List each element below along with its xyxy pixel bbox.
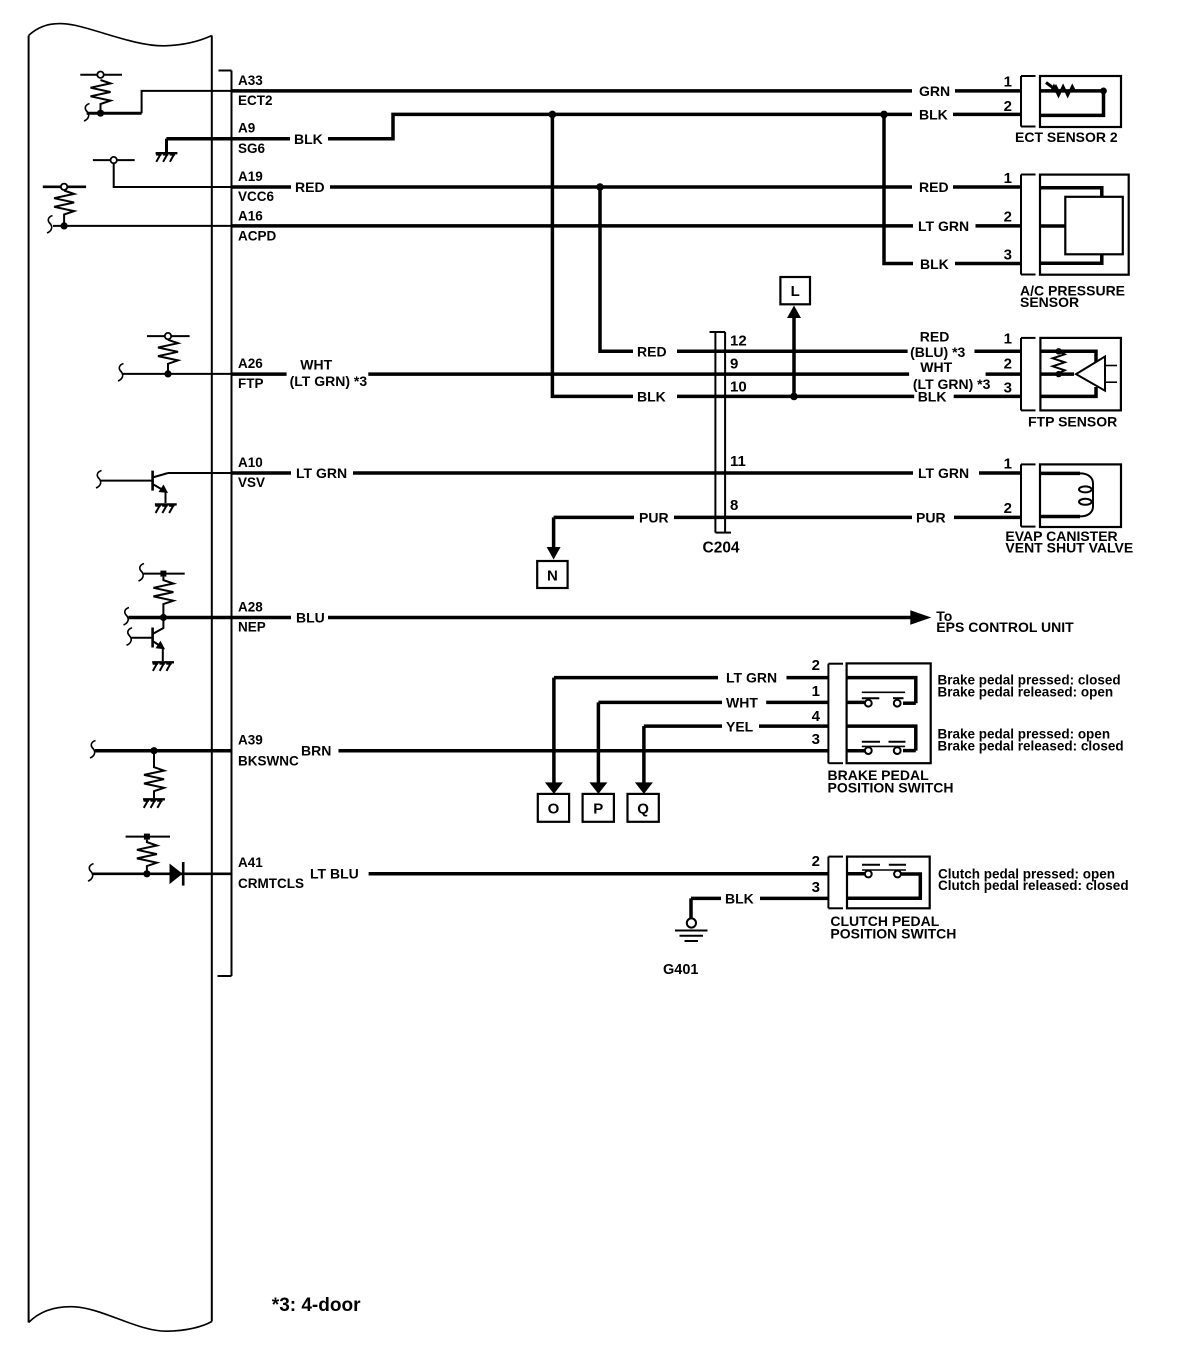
top contact right link	[903, 701, 916, 705]
wire LT GRN to pin2	[787, 676, 829, 680]
transistor Q-A28 base wire with hook	[132, 637, 153, 639]
ECM torn band left edge	[28, 36, 30, 1323]
ground symbol A28	[152, 662, 174, 671]
pull-up at A16: top bar	[43, 186, 86, 189]
ECT bracket	[1020, 76, 1022, 127]
hook squiggle A28 top	[139, 564, 145, 582]
drop O	[552, 678, 556, 783]
wire LT GRN brake	[554, 676, 718, 680]
ground symbol A39	[143, 799, 165, 808]
svg-text:RED: RED	[295, 179, 325, 195]
top contact bars	[862, 697, 880, 699]
wire A19 drop and run	[114, 163, 232, 187]
junction dot A39	[150, 747, 157, 754]
svg-text:BLK: BLK	[294, 131, 323, 147]
arrow to L	[792, 316, 796, 396]
svg-text:A9: A9	[238, 121, 255, 136]
wire A28 emitter drop	[162, 648, 164, 661]
wire BLK branch	[884, 114, 913, 263]
box N	[537, 561, 567, 588]
box Q	[628, 794, 659, 822]
svg-text:2: 2	[812, 853, 820, 870]
wire A33 bottom bar with hook	[87, 112, 142, 115]
svg-text:A19: A19	[238, 169, 263, 184]
diode D-A41	[170, 864, 183, 885]
svg-text:VSV: VSV	[238, 475, 265, 490]
transistor Q-A28 base bar	[151, 628, 154, 648]
wire LT GRN stub	[232, 471, 292, 475]
ECT loop corner dot	[1100, 88, 1107, 95]
FTP resistor	[1053, 351, 1065, 373]
svg-text:BLK: BLK	[919, 107, 948, 123]
hook squiggle A26	[118, 364, 124, 382]
arrowhead EPS	[910, 610, 931, 625]
svg-text:Brake pedal released: open: Brake pedal released: open	[938, 685, 1114, 700]
box O	[538, 794, 569, 822]
bracket top hook	[219, 70, 232, 72]
svg-text:A39: A39	[238, 733, 263, 748]
A/C pin1 internal	[1040, 188, 1102, 197]
ECM torn band top wave	[29, 24, 212, 46]
wire GRN row	[232, 89, 913, 93]
svg-text:BRN: BRN	[301, 743, 331, 759]
svg-text:8: 8	[730, 497, 738, 514]
wire PUR row8	[674, 516, 912, 520]
svg-text:1: 1	[1004, 170, 1012, 187]
svg-text:CRMTCLS: CRMTCLS	[238, 876, 304, 891]
svg-text:PUR: PUR	[639, 510, 669, 526]
wire A10 collector run	[168, 472, 232, 474]
clutch right link and return path	[847, 874, 920, 898]
svg-text:Brake pedal released: closed: Brake pedal released: closed	[938, 739, 1124, 754]
top contact circles	[865, 700, 872, 707]
wire RED to FTP pin1	[975, 350, 1022, 354]
svg-text:2: 2	[812, 657, 820, 674]
svg-text:2: 2	[1004, 209, 1012, 226]
svg-text:A10: A10	[238, 455, 263, 470]
svg-text:RED: RED	[920, 329, 950, 345]
wire RED drop from row3	[600, 187, 633, 351]
clutch contact bars	[862, 864, 880, 866]
svg-text:C204: C204	[703, 540, 740, 557]
svg-text:G401: G401	[663, 962, 698, 978]
svg-text:WHT: WHT	[300, 356, 332, 372]
brake switch bottom contact: pin4 path	[847, 726, 916, 751]
transistor Q-A10 emitter with arrow	[153, 484, 166, 492]
bracket bottom hook	[218, 975, 232, 977]
junction dot BLK x553	[549, 111, 557, 119]
connector C204	[710, 332, 732, 533]
svg-text:(LT GRN) *3: (LT GRN) *3	[290, 373, 368, 389]
hook squiggle A10	[96, 471, 102, 489]
FTP pin3 internal	[1040, 387, 1096, 396]
svg-text:BLK: BLK	[918, 389, 947, 405]
wire A41/CRMTCLS run with hook	[93, 872, 232, 875]
svg-text:ACPD: ACPD	[238, 229, 277, 244]
pull-up A16 terminal circle	[61, 184, 67, 190]
ground G401	[675, 918, 708, 941]
svg-text:RED: RED	[637, 344, 667, 360]
wire BLK row10	[677, 395, 914, 399]
svg-text:BLK: BLK	[637, 389, 666, 405]
EVAP bracket	[1020, 464, 1022, 526]
wire A26 run with hook	[123, 373, 232, 375]
svg-text:P: P	[593, 801, 603, 818]
svg-text:1: 1	[1004, 74, 1012, 91]
brake switch top contact: pin2 path	[847, 678, 916, 704]
box P	[583, 794, 614, 822]
svg-text:11: 11	[730, 453, 746, 470]
wire YEL brake	[644, 724, 722, 728]
wire PUR to EVAP pin2	[954, 516, 1021, 520]
pull-up at A26: top bar	[147, 335, 190, 337]
junction dot L-branch	[790, 393, 798, 401]
hook squiggle A33	[84, 104, 90, 122]
resistor R-A28 zigzag	[153, 577, 173, 618]
svg-text:POSITION SWITCH: POSITION SWITCH	[830, 926, 956, 942]
svg-text:1: 1	[812, 683, 820, 700]
svg-text:3: 3	[812, 731, 820, 748]
transistor Q-A28 emitter with arrow	[153, 641, 163, 648]
svg-text:Clutch pedal released: closed: Clutch pedal released: closed	[938, 878, 1129, 893]
svg-text:FTP: FTP	[238, 376, 264, 391]
ECT thermistor wires	[1040, 91, 1104, 116]
A41 cluster: top bar	[126, 836, 170, 838]
wire WHT to pin1	[766, 701, 828, 705]
FTP box	[1040, 338, 1121, 411]
svg-text:2: 2	[1004, 98, 1012, 115]
svg-text:YEL: YEL	[726, 719, 754, 735]
wire LT GRN row11	[353, 471, 913, 475]
resistor R-A33 zigzag	[91, 80, 111, 113]
svg-text:3: 3	[1004, 380, 1012, 397]
svg-text:A16: A16	[238, 209, 263, 224]
transistor Q-A10 base wire with hook	[101, 480, 153, 482]
svg-text:A26: A26	[238, 356, 263, 371]
wire RED to pin1	[953, 185, 1021, 189]
svg-text:A28: A28	[238, 600, 263, 615]
wire A10 emitter drop	[165, 492, 167, 504]
svg-text:GRN: GRN	[919, 83, 950, 99]
svg-text:A33: A33	[238, 73, 263, 88]
bottom contact right link	[903, 749, 916, 753]
svg-text:N: N	[547, 568, 558, 585]
wire GRN to pin1	[955, 89, 1021, 93]
wire BLK step-up run	[328, 114, 912, 138]
pull-up A19 terminal circle	[111, 157, 117, 163]
resistor R-A16 zigzag	[54, 191, 74, 226]
svg-text:A41: A41	[238, 855, 263, 870]
wire A16 run with hook	[53, 225, 232, 227]
EVAP box	[1040, 464, 1121, 527]
ECM torn band right edge	[211, 36, 213, 1322]
wire A39/BKSWNC run with hook	[95, 749, 232, 753]
ground symbol A10	[155, 504, 177, 513]
wire BLU stub	[232, 616, 292, 620]
clutch contact circles	[865, 871, 872, 878]
svg-text:POSITION SWITCH: POSITION SWITCH	[828, 780, 954, 796]
svg-text:10: 10	[730, 379, 747, 396]
svg-text:VCC6: VCC6	[238, 189, 275, 204]
arrow to N	[552, 517, 556, 548]
ECM torn band bottom wave	[29, 1307, 212, 1332]
svg-text:LT GRN: LT GRN	[296, 465, 347, 481]
brake switch box	[847, 663, 931, 763]
FTP bracket	[1020, 338, 1022, 411]
svg-text:NEP: NEP	[238, 620, 266, 635]
FTP pin1 internal	[1040, 351, 1096, 362]
transistor Q-A28 collector drop	[153, 618, 164, 635]
wire LT GRN to pin2	[976, 224, 1022, 228]
FTP pin2 internal	[1040, 372, 1074, 376]
svg-text:VENT SHUT VALVE: VENT SHUT VALVE	[1005, 540, 1133, 556]
wire BLK stub	[232, 137, 291, 141]
svg-text:9: 9	[730, 356, 738, 373]
pin1 wire to left contact	[847, 701, 865, 705]
svg-text:12: 12	[730, 333, 747, 350]
transistor Q-A10 collector	[153, 473, 168, 478]
svg-text:EPS CONTROL UNIT: EPS CONTROL UNIT	[936, 619, 1074, 635]
svg-text:3: 3	[812, 879, 820, 896]
ECM connector bracket	[231, 71, 233, 977]
EVAP coil bottom wire	[1040, 515, 1080, 519]
bottom contact bars	[862, 741, 880, 743]
svg-text:FTP SENSOR: FTP SENSOR	[1028, 414, 1117, 430]
svg-text:WHT: WHT	[726, 695, 758, 711]
svg-text:O: O	[548, 801, 560, 818]
square node A28	[160, 571, 166, 577]
wire BLK ground drop	[689, 898, 693, 918]
wire BLU run to EPS	[328, 616, 913, 620]
svg-text:1: 1	[1004, 331, 1012, 348]
wire A9 ground drop	[165, 139, 168, 153]
wire WHT brake	[598, 701, 722, 705]
svg-text:BLK: BLK	[920, 256, 949, 272]
junction dot A33	[97, 110, 104, 117]
hook squiggle A28 base	[127, 628, 133, 646]
svg-text:BLK: BLK	[725, 891, 754, 907]
svg-text:LT GRN: LT GRN	[918, 465, 969, 481]
thermistor arrow	[1046, 83, 1056, 91]
pull-up resistor at A33: top bar	[80, 74, 122, 76]
svg-text:LT GRN: LT GRN	[726, 670, 777, 686]
pull-up at A19: top bar	[93, 159, 135, 161]
wire BLK to ECT pin2	[953, 113, 1021, 117]
svg-text:3: 3	[1004, 247, 1012, 264]
ECT box	[1040, 76, 1121, 127]
svg-text:Q: Q	[637, 801, 649, 818]
wire BLK to pin3	[760, 897, 828, 901]
wire BRN run	[339, 749, 829, 753]
pull-up A26 terminal circle	[165, 333, 171, 339]
bottom contact circles	[865, 747, 872, 754]
transistor Q-A10 base bar	[151, 471, 154, 491]
wire PUR run	[554, 516, 634, 520]
wire LT GRN run	[232, 224, 914, 228]
svg-text:RED: RED	[919, 179, 949, 195]
A28 cluster: top bar with hook	[144, 573, 185, 575]
svg-text:SENSOR: SENSOR	[1020, 294, 1079, 310]
clutch contact: pin2 wire to left circle	[847, 872, 865, 876]
resistor R-A41 zigzag	[137, 840, 157, 874]
hook squiggle A16	[47, 216, 53, 234]
square node A41	[144, 834, 150, 840]
wire LT BLU run	[369, 872, 828, 876]
clutch switch box	[847, 857, 930, 909]
A/C bracket	[1020, 175, 1022, 275]
junction dot A41	[143, 870, 150, 877]
svg-text:BLU: BLU	[296, 610, 325, 626]
wire BLK drop from x553	[552, 114, 633, 396]
svg-text:BKSWNC: BKSWNC	[238, 754, 299, 769]
wire BLK clutch	[691, 897, 721, 901]
resistor R-A26 zigzag	[158, 340, 178, 374]
svg-text:2: 2	[1004, 500, 1012, 517]
svg-text:4: 4	[812, 708, 821, 725]
hook squiggle A41	[88, 864, 94, 882]
thermistor zigzag	[1052, 86, 1075, 96]
pin3 wire to left contact	[847, 749, 865, 753]
wire A33 step up	[142, 91, 232, 113]
ground wire at A9	[166, 137, 231, 141]
brake switch bracket	[827, 664, 829, 764]
svg-text:ECT SENSOR 2: ECT SENSOR 2	[1015, 129, 1118, 145]
junction dot A28	[160, 614, 167, 621]
box L	[780, 277, 810, 304]
pull-up A33 terminal circle	[97, 72, 103, 78]
svg-text:LT GRN: LT GRN	[918, 218, 969, 234]
hook squiggle A39	[90, 741, 96, 759]
drop P	[597, 702, 601, 783]
svg-text:*3: 4-door: *3: 4-door	[272, 1295, 361, 1316]
FTP triangle	[1076, 357, 1105, 391]
svg-text:2: 2	[1004, 356, 1012, 373]
FTP stubs	[1105, 365, 1117, 367]
wire BLK to FTP pin3	[954, 395, 1021, 399]
clutch switch bracket	[827, 857, 829, 909]
A/C pin3 internal	[1040, 254, 1102, 263]
ground symbol SG6	[156, 153, 178, 162]
svg-text:L: L	[791, 283, 800, 300]
wire YEL to pin4	[759, 724, 828, 728]
svg-text:WHT: WHT	[920, 359, 952, 375]
EVAP coil	[1080, 473, 1093, 516]
wire LT GRN to EVAP pin1	[979, 471, 1021, 475]
A/C pin2 internal	[1040, 224, 1065, 228]
svg-text:ECT2: ECT2	[238, 93, 273, 108]
wire RED row12	[677, 350, 908, 354]
wire WHT row9	[368, 372, 909, 376]
A/C inner square	[1065, 197, 1123, 255]
wire BLK to pin3	[955, 262, 1021, 266]
svg-text:PUR: PUR	[916, 510, 946, 526]
junction dot RED x600	[596, 183, 604, 191]
wire RED run	[330, 185, 912, 189]
wire WHT to FTP pin2	[986, 372, 1021, 376]
junction dot A16	[61, 222, 68, 229]
junction dot A26	[164, 370, 171, 377]
wire RED stub	[232, 185, 292, 189]
svg-text:SG6: SG6	[238, 141, 266, 156]
EVAP coil top wire	[1040, 472, 1080, 476]
junction dot BLK x884	[880, 111, 888, 119]
A/C box	[1040, 175, 1129, 275]
wire WHT stub	[232, 372, 287, 376]
resistor R-A39 zigzag	[144, 751, 164, 799]
svg-text:(BLU) *3: (BLU) *3	[910, 344, 965, 360]
svg-text:1: 1	[1004, 456, 1012, 473]
svg-text:LT BLU: LT BLU	[310, 866, 359, 882]
wire A28/NEP run with hook	[129, 616, 232, 620]
hook squiggle A28	[124, 608, 130, 626]
drop Q	[642, 726, 646, 783]
